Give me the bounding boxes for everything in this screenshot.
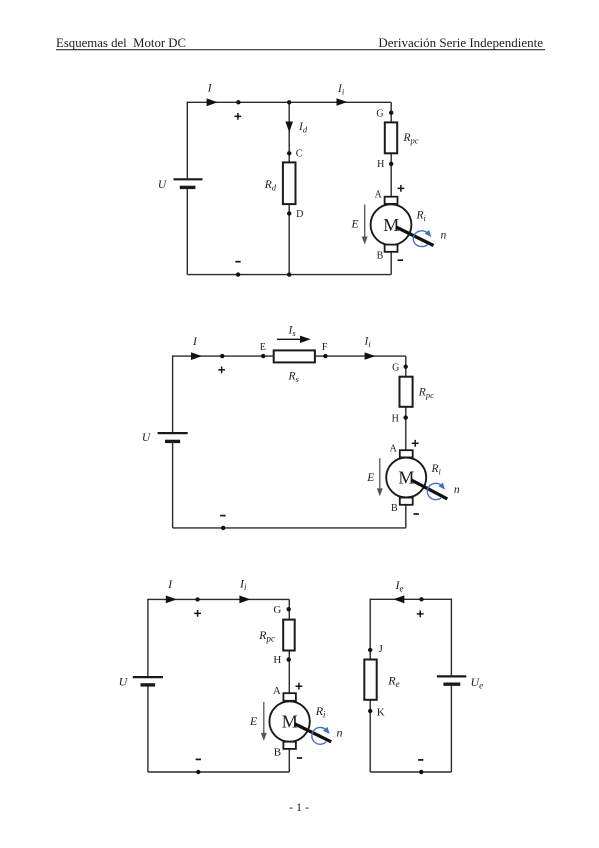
emf arrow E c1 bbox=[362, 205, 368, 245]
current arrow Id c1 bbox=[285, 122, 293, 133]
svg-text:M: M bbox=[383, 215, 399, 235]
battery U3 bbox=[133, 677, 163, 685]
shaft c2 bbox=[411, 480, 447, 499]
label - motor c1 bbox=[398, 259, 403, 261]
wire c1 left lower bbox=[186, 188, 188, 274]
svg-text:B: B bbox=[391, 503, 398, 514]
svg-text:Ue: Ue bbox=[471, 675, 484, 691]
current arrow Is c2 bbox=[277, 336, 311, 343]
svg-text:- 1 -: - 1 - bbox=[289, 800, 309, 814]
battery Ue bbox=[437, 676, 466, 684]
rotation arrow n c3 bbox=[312, 727, 330, 744]
wire c2 top bbox=[173, 355, 406, 357]
svg-text:A: A bbox=[390, 443, 398, 454]
node dot c2 top-left bbox=[220, 354, 224, 358]
svg-text:I: I bbox=[192, 336, 198, 348]
wire c3 main right upper bbox=[288, 599, 290, 694]
node dot c1 bottom-left bbox=[236, 272, 240, 276]
wire c2 right upper bbox=[405, 356, 407, 451]
current arrow I c2 bbox=[191, 352, 202, 360]
current arrow Ii c1 bbox=[337, 98, 348, 106]
svg-text:M: M bbox=[282, 712, 298, 732]
svg-text:Is: Is bbox=[288, 324, 297, 338]
svg-text:Rpc: Rpc bbox=[403, 132, 419, 146]
wire c3 excitation left bbox=[369, 599, 371, 772]
shaft c1 bbox=[396, 227, 434, 246]
svg-text:Rd: Rd bbox=[264, 179, 277, 193]
node H dot c2 bbox=[404, 415, 408, 419]
label - motor c3 bbox=[297, 757, 302, 759]
header rule bbox=[56, 49, 545, 51]
label - c3 bbox=[196, 758, 201, 760]
wire c1 bottom bbox=[187, 274, 391, 276]
node H dot c1 bbox=[389, 162, 393, 166]
svg-text:B: B bbox=[377, 250, 384, 261]
current arrow I c1 bbox=[207, 98, 218, 106]
svg-text:G: G bbox=[273, 604, 281, 616]
svg-text:A: A bbox=[273, 685, 281, 697]
svg-text:Esquemas del Motor DC: Esquemas del Motor DC bbox=[56, 36, 186, 50]
battery U2 bbox=[158, 433, 188, 441]
svg-text:E: E bbox=[350, 219, 358, 231]
svg-text:n: n bbox=[337, 726, 343, 740]
svg-text:n: n bbox=[441, 230, 447, 242]
wire c3 main left lower bbox=[147, 686, 149, 772]
wire c3 excitation right lower bbox=[450, 685, 452, 772]
svg-text:Ii: Ii bbox=[364, 336, 372, 350]
wire c3 main bottom bbox=[148, 771, 289, 773]
svg-text:Rs: Rs bbox=[288, 370, 300, 384]
wire c1 shunt branch bbox=[288, 102, 290, 274]
svg-text:M: M bbox=[398, 468, 414, 488]
label + c2 bbox=[218, 367, 225, 374]
svg-text:H: H bbox=[392, 414, 399, 425]
resistor Rd bbox=[283, 162, 296, 204]
node E dot bbox=[261, 354, 265, 358]
svg-text:Rpc: Rpc bbox=[258, 628, 275, 644]
node G dot c1 bbox=[389, 111, 393, 115]
label + exc c3 bbox=[417, 611, 424, 618]
wire c3 excitation bottom bbox=[370, 771, 451, 773]
rotation arrow n c1 bbox=[413, 230, 431, 247]
node H dot c3 bbox=[287, 657, 291, 661]
wire c3 main top bbox=[148, 598, 289, 600]
node C dot bbox=[287, 151, 291, 155]
node dot c1 shunt-top bbox=[287, 100, 291, 104]
svg-text:Id: Id bbox=[298, 121, 308, 135]
wire c1 top bbox=[187, 101, 391, 103]
label + motor c1 bbox=[398, 185, 405, 192]
wire c3 excitation top bbox=[370, 598, 451, 600]
svg-text:U: U bbox=[158, 179, 167, 191]
svg-text:G: G bbox=[376, 109, 383, 120]
label - c1 bbox=[235, 261, 240, 263]
resistor Re bbox=[364, 660, 376, 700]
emf arrow E c3 bbox=[261, 702, 267, 741]
node dot c1 top-left bbox=[236, 100, 240, 104]
svg-text:Ie: Ie bbox=[395, 578, 404, 594]
motor M1 bbox=[371, 197, 412, 252]
svg-text:B: B bbox=[274, 747, 281, 759]
svg-text:Ii: Ii bbox=[337, 83, 345, 97]
label + c1 bbox=[235, 113, 242, 120]
svg-text:E: E bbox=[260, 342, 266, 353]
svg-text:K: K bbox=[377, 707, 385, 719]
node dot c3 bottom-left bbox=[196, 770, 200, 774]
wire c1 right branch bbox=[390, 102, 392, 198]
label - c2 bbox=[220, 515, 225, 517]
wire c3 motor to bottom bbox=[288, 748, 290, 772]
svg-text:H: H bbox=[377, 159, 384, 170]
wire c1 left upper bbox=[186, 102, 188, 179]
svg-text:C: C bbox=[296, 149, 303, 160]
svg-text:Rpc: Rpc bbox=[418, 386, 434, 400]
node dot c3 exc bottom bbox=[419, 770, 423, 774]
svg-text:H: H bbox=[273, 654, 281, 666]
node G dot c2 bbox=[404, 365, 408, 369]
svg-text:J: J bbox=[379, 643, 384, 655]
svg-text:n: n bbox=[454, 484, 460, 496]
current arrow Ie c3 bbox=[393, 595, 404, 603]
node dot c1 bottom-shunt bbox=[287, 272, 291, 276]
node G dot c3 bbox=[287, 607, 291, 611]
emf arrow E c2 bbox=[377, 458, 383, 496]
node D dot bbox=[287, 211, 291, 215]
svg-text:Ri: Ri bbox=[431, 463, 442, 477]
battery U1 bbox=[174, 179, 203, 187]
wire c2 left upper bbox=[172, 355, 174, 432]
svg-text:E: E bbox=[366, 472, 374, 484]
wire c2 bottom bbox=[173, 527, 406, 529]
wire c3 main left upper bbox=[147, 599, 149, 676]
svg-text:G: G bbox=[392, 363, 399, 374]
current arrow Ii c2 bbox=[365, 352, 376, 359]
label + motor c3 bbox=[296, 683, 303, 690]
resistor Rpc c1 bbox=[385, 122, 397, 153]
svg-text:Ri: Ri bbox=[416, 210, 427, 224]
resistor Rpc c3 bbox=[283, 620, 295, 651]
wire c2 left lower bbox=[172, 443, 174, 528]
svg-text:A: A bbox=[374, 190, 382, 201]
node dot c3 exc top bbox=[419, 597, 423, 601]
node J dot bbox=[368, 648, 372, 652]
wire c2 motor to bottom bbox=[405, 504, 407, 528]
svg-text:Ri: Ri bbox=[315, 704, 326, 720]
svg-text:I: I bbox=[207, 83, 213, 95]
svg-text:U: U bbox=[119, 674, 129, 688]
shaft c3 bbox=[295, 724, 331, 742]
svg-text:Derivación Serie Independiente: Derivación Serie Independiente bbox=[378, 35, 543, 50]
resistor Rpc c2 bbox=[400, 377, 413, 407]
svg-text:Re: Re bbox=[387, 674, 399, 690]
label - motor c2 bbox=[414, 513, 419, 515]
svg-text:D: D bbox=[296, 209, 303, 220]
node dot c3 top-left bbox=[195, 597, 199, 601]
node F dot bbox=[323, 354, 327, 358]
current arrow I c3 bbox=[166, 596, 177, 604]
motor M2 bbox=[386, 450, 426, 505]
label - exc c3 bbox=[418, 759, 423, 761]
motor M3 bbox=[269, 693, 309, 749]
svg-text:U: U bbox=[142, 432, 151, 444]
label + c3 bbox=[194, 610, 201, 617]
wire c1 motor to bottom bbox=[390, 251, 392, 275]
svg-text:Ii: Ii bbox=[239, 577, 247, 593]
wire c3 excitation right upper bbox=[450, 599, 452, 676]
svg-text:E: E bbox=[249, 714, 258, 728]
svg-text:F: F bbox=[322, 342, 328, 353]
rotation arrow n c2 bbox=[427, 483, 445, 500]
label + motor c2 bbox=[412, 440, 419, 447]
resistor Rs bbox=[274, 350, 315, 362]
node dot c2 bottom-left bbox=[221, 526, 225, 530]
current arrow Ii c3 bbox=[239, 596, 250, 604]
node K dot bbox=[368, 709, 372, 713]
svg-text:I: I bbox=[167, 577, 173, 591]
